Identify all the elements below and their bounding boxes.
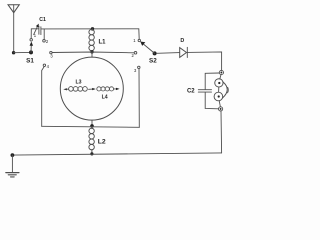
inductor L2 [89, 127, 106, 154]
node L1 top [91, 27, 94, 30]
wire bottom rail [12, 153, 221, 155]
svg-text:L3: L3 [75, 80, 81, 86]
wire L1 bottom to variometer [91, 52, 93, 57]
variometer coupling arrow left [63, 88, 69, 90]
terminal top [219, 70, 223, 74]
ground [6, 153, 19, 177]
wire contact1 up to C1 [31, 29, 39, 39]
svg-text:4: 4 [47, 64, 50, 69]
wire S2 pivot to diode [157, 52, 180, 55]
C1 adjust arrow [34, 26, 38, 34]
S1 pivot [29, 50, 33, 54]
terminal bottom [219, 107, 223, 111]
svg-text:L2: L2 [98, 138, 106, 145]
node antenna junction [12, 51, 15, 54]
svg-text:2: 2 [132, 53, 135, 58]
svg-text:D: D [180, 38, 184, 44]
wire between earpieces [218, 87, 220, 92]
C1 left plate [38, 26, 40, 34]
variometer enclosure circle [60, 57, 123, 120]
S2 wiper arm [144, 44, 155, 53]
diode D [180, 38, 188, 58]
wire C2 bottom [205, 93, 218, 109]
node L2 bottom [90, 152, 93, 155]
switch S1 [26, 33, 53, 69]
node L2 top [90, 124, 94, 128]
inductor L3 [69, 80, 88, 92]
antenna [8, 5, 19, 53]
C1 right plate [40, 27, 42, 35]
C2 plates [198, 89, 211, 91]
svg-text:3: 3 [50, 54, 53, 59]
wire diode to right corner [187, 52, 221, 70]
headband arc [223, 82, 228, 98]
wire rail corner to contact 1 [138, 29, 140, 39]
wire S1 contact2 to rail [43, 29, 45, 40]
svg-text:2: 2 [46, 39, 49, 44]
svg-text:S1: S1 [26, 57, 34, 64]
S2 contact 2 [134, 52, 137, 55]
wire terminal to C2 top [205, 73, 219, 89]
wire bottom terminal to rail [220, 111, 223, 153]
headphones [214, 75, 228, 107]
inductor L4 [97, 87, 114, 101]
switch S2 [132, 29, 158, 73]
wire node row (contact4 corner to contact3 corner) [42, 126, 140, 127]
wire S1 contact3 to S2 contact2 [52, 51, 134, 54]
S1 contact 2 [43, 40, 46, 43]
svg-text:C1: C1 [39, 17, 46, 23]
inductor L1 [89, 29, 106, 52]
wire top rail [41, 28, 139, 30]
S1 contact 1 [30, 39, 33, 42]
S2 contact 3 [138, 66, 140, 68]
wire S1 contact4 down [42, 67, 45, 127]
svg-text:1: 1 [133, 38, 136, 43]
wire S2 contact3 down [138, 69, 140, 128]
S2 contact 1 [138, 39, 140, 41]
wire lower earpiece to terminal [219, 101, 220, 107]
svg-text:L4: L4 [102, 95, 108, 101]
svg-text:C2: C2 [187, 88, 195, 94]
S1 contact 4 [43, 64, 45, 66]
S1 wiper arm [30, 45, 32, 53]
upper earpiece [215, 79, 223, 87]
S1 contact 3 [50, 51, 52, 53]
wire terminal to upper phone [220, 75, 221, 79]
svg-text:L1: L1 [98, 40, 106, 46]
wire antenna to S1 wiper [14, 51, 30, 53]
S2 pivot [153, 51, 157, 55]
variometer coupling arrow right [114, 88, 120, 90]
svg-text:3: 3 [134, 68, 137, 73]
node L1 bottom [90, 50, 93, 53]
capacitor C1 [31, 17, 46, 38]
lower earpiece [214, 92, 223, 101]
variometer coupling arrow middle [89, 88, 96, 90]
wire variometer bottom stem [91, 120, 93, 127]
capacitor C2 [187, 73, 219, 109]
svg-text:S2: S2 [149, 58, 157, 65]
